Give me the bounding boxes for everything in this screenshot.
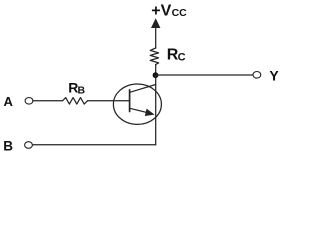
emitter arrowhead <box>145 109 155 116</box>
base bar <box>129 90 131 112</box>
svg-text:CC: CC <box>172 7 188 19</box>
transistor Q1 circle <box>113 84 161 124</box>
resistor RB <box>63 98 88 105</box>
wire node down through collector/emitter to B corner <box>155 75 157 145</box>
wire node to Y <box>156 74 254 76</box>
label RC <box>167 47 186 64</box>
wire A to RB <box>33 100 63 102</box>
terminal Y <box>253 72 261 79</box>
svg-text:+V: +V <box>151 2 171 19</box>
svg-text:B: B <box>78 85 86 97</box>
terminal B <box>25 142 33 149</box>
wire RB to base <box>88 100 130 102</box>
svg-text:Y: Y <box>269 67 279 83</box>
resistor RC <box>150 48 158 65</box>
collector lead <box>130 85 156 93</box>
wire VCC to RC <box>155 27 157 49</box>
node junction dot <box>153 72 159 78</box>
label RB <box>68 79 85 96</box>
wire B to emitter corner <box>32 144 155 146</box>
svg-text:A: A <box>4 94 14 109</box>
emitter lead <box>130 108 151 113</box>
power arrow <box>151 18 160 28</box>
label +VCC <box>151 2 187 19</box>
terminal A <box>25 98 33 105</box>
svg-text:C: C <box>178 51 186 63</box>
svg-text:B: B <box>3 138 13 153</box>
wire RC to node <box>155 65 157 76</box>
